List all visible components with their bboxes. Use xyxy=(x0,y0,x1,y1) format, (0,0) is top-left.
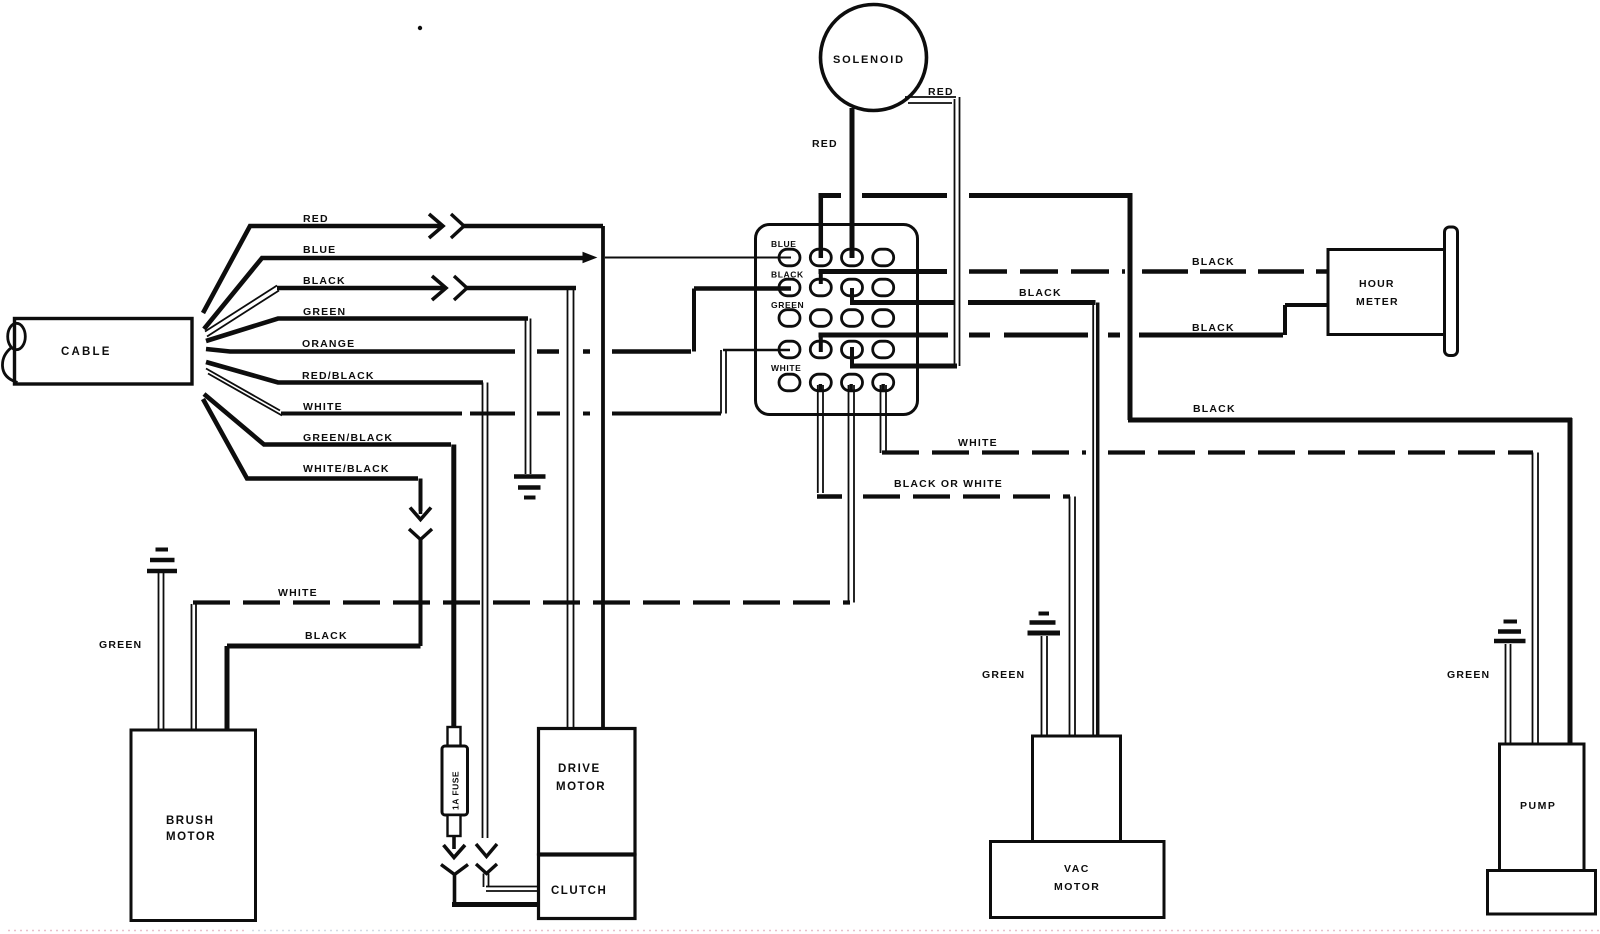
svg-text:VAC: VAC xyxy=(1064,863,1090,875)
wire BLACK y335 (block row4 col2 to hour meter lower, dashed) xyxy=(819,305,1329,352)
scan artifact dotted line (bottom edge) xyxy=(8,930,1600,932)
wire BLUE (fan to terminal block row1) xyxy=(204,244,791,329)
svg-text:BLACK: BLACK xyxy=(305,630,348,642)
svg-text:MOTOR: MOTOR xyxy=(556,781,606,793)
cable xyxy=(2,319,192,385)
wire RED/BLACK (fan to clutch connector) xyxy=(206,362,488,838)
svg-text:SOLENOID: SOLENOID xyxy=(833,54,905,66)
svg-text:BLACK: BLACK xyxy=(303,275,346,287)
ground (brush motor) xyxy=(147,550,177,731)
terminal block xyxy=(756,225,918,415)
svg-text:BRUSH: BRUSH xyxy=(166,815,214,827)
svg-text:GREEN: GREEN xyxy=(1447,669,1490,681)
connector arrow+receptacle (white/black to brush motor black) xyxy=(409,505,432,646)
svg-text:BLACK: BLACK xyxy=(1192,256,1235,268)
solenoid xyxy=(821,5,927,111)
wire WHITE y453 (block row5 col4 to pump, dashed) xyxy=(881,384,1539,745)
wire BLACK (connector to brush motor) xyxy=(227,630,421,730)
wire BLACK y420 (to pump) xyxy=(1128,403,1572,420)
svg-text:BLACK OR WHITE: BLACK OR WHITE xyxy=(894,478,1003,490)
svg-text:RED: RED xyxy=(928,86,954,98)
wire BLACK y269 (block row2 col2 to hour meter, dashed) xyxy=(819,256,1329,284)
wire (block row1 col2 up to top bus) xyxy=(819,196,824,259)
wire top bus y195 (block to right, to hour-meter BLACK drop) xyxy=(819,193,1131,198)
connector arrow+receptacle (red/black to clutch) xyxy=(476,844,540,891)
svg-text:CLUTCH: CLUTCH xyxy=(551,885,607,897)
svg-text:WHITE/BLACK: WHITE/BLACK xyxy=(303,463,390,475)
svg-text:BLUE: BLUE xyxy=(771,239,797,249)
svg-text:DRIVE: DRIVE xyxy=(558,763,601,775)
wire BLACK y302 (block row2 col3 to vac motor) xyxy=(850,287,1098,737)
wire vertical x1130 xyxy=(1128,193,1133,420)
svg-text:GREEN/BLACK: GREEN/BLACK xyxy=(303,432,393,444)
terminal ovals xyxy=(779,249,894,391)
wire (block row5 col3 down to white dashed bus) xyxy=(849,384,855,603)
drive motor xyxy=(539,729,636,855)
wire BLACK OR WHITE (to vac motor, dashed) xyxy=(863,478,1075,737)
svg-text:GREEN: GREEN xyxy=(982,669,1025,681)
speck dot xyxy=(418,26,422,30)
pump xyxy=(1488,744,1596,914)
svg-text:METER: METER xyxy=(1356,296,1399,308)
vac motor xyxy=(991,736,1165,918)
wire WHITE (brush motor to terminal block row5 col3, dashed) xyxy=(192,587,851,730)
wire RED (solenoid right, double line) xyxy=(905,86,960,366)
svg-text:WHITE: WHITE xyxy=(278,587,318,599)
svg-text:GREEN: GREEN xyxy=(303,306,346,318)
hour meter xyxy=(1328,227,1458,356)
svg-text:MOTOR: MOTOR xyxy=(1054,881,1100,893)
wire (block row5 col2 down to BLACK OR WHITE) xyxy=(817,384,842,497)
svg-text:MOTOR: MOTOR xyxy=(166,831,216,843)
ground (vac motor) xyxy=(1028,614,1061,738)
wire WHITE (fan to terminal block row4) xyxy=(206,350,790,416)
wire WHITE/BLACK (fan to connector) xyxy=(203,399,421,511)
wire GREEN/BLACK (fan to fuse) xyxy=(204,394,454,727)
wire GREEN (fan to ground) xyxy=(206,306,531,474)
svg-text:RED: RED xyxy=(303,213,329,225)
svg-text:BLACK: BLACK xyxy=(1192,322,1235,334)
wire vertical x1570 (to pump) xyxy=(1568,418,1573,745)
wire RED (solenoid down to block) xyxy=(812,108,852,258)
wire BLACK (fan to drive motor, double line down) xyxy=(205,275,576,728)
svg-text:PUMP: PUMP xyxy=(1520,800,1556,812)
svg-text:RED/BLACK: RED/BLACK xyxy=(302,370,375,382)
connector arrow+receptacle (fuse to clutch) xyxy=(441,836,540,905)
wire ORANGE (fan to terminal block row2) xyxy=(206,289,791,352)
svg-text:ORANGE: ORANGE xyxy=(302,338,355,350)
wire RED (fan to drive motor) xyxy=(203,213,603,728)
svg-text:BLACK: BLACK xyxy=(1193,403,1236,415)
svg-text:GREEN: GREEN xyxy=(99,639,142,651)
svg-text:BLUE: BLUE xyxy=(303,244,336,256)
svg-text:WHITE: WHITE xyxy=(303,401,343,413)
svg-text:RED: RED xyxy=(812,138,838,150)
svg-text:BLACK: BLACK xyxy=(1019,287,1062,299)
clutch xyxy=(539,855,636,919)
svg-text:WHITE: WHITE xyxy=(958,437,998,449)
svg-text:WHITE: WHITE xyxy=(771,363,801,373)
brush motor xyxy=(131,730,256,921)
ground (pump) xyxy=(1494,622,1526,746)
wire y366 (block row4 col3 to solenoid red) xyxy=(850,347,957,367)
ground (green wire, mid) xyxy=(514,477,546,498)
fuse 1A FUSE xyxy=(442,727,468,836)
svg-text:CABLE: CABLE xyxy=(61,346,112,358)
svg-text:HOUR: HOUR xyxy=(1359,278,1395,290)
svg-text:1A FUSE: 1A FUSE xyxy=(451,771,461,810)
